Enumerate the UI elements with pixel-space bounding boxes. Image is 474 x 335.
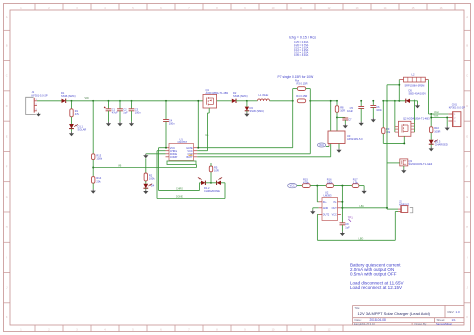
svg-text:1uF: 1uF bbox=[123, 111, 128, 115]
svg-text:SS36 (SMC): SS36 (SMC) bbox=[250, 109, 265, 113]
svg-text:C7: C7 bbox=[348, 117, 352, 121]
svg-text:KF301-5.0-2P: KF301-5.0-2P bbox=[449, 105, 465, 109]
svg-text:470k: 470k bbox=[303, 180, 309, 184]
svg-text:SS36 (SMC): SS36 (SMC) bbox=[233, 94, 248, 98]
svg-text:Vout: Vout bbox=[434, 115, 439, 118]
svg-text:10R: 10R bbox=[340, 109, 345, 113]
svg-text:1uF: 1uF bbox=[345, 225, 350, 229]
svg-text:H: H bbox=[6, 226, 8, 229]
svg-text:TP1: TP1 bbox=[348, 216, 354, 220]
svg-text:C: C bbox=[6, 75, 8, 78]
svg-text:Load reconnect at 12.15V: Load reconnect at 12.15V bbox=[350, 285, 403, 290]
svg-text:VCC: VCC bbox=[290, 185, 295, 188]
svg-text:SBD 40A/100V: SBD 40A/100V bbox=[409, 91, 427, 95]
svg-text:EasyEDA v5.3.10: EasyEDA v5.3.10 bbox=[354, 322, 375, 326]
svg-text:LM393: LM393 bbox=[324, 194, 332, 198]
svg-text:SS36 (SMC): SS36 (SMC) bbox=[61, 94, 76, 98]
svg-text:IN-: IN- bbox=[334, 201, 337, 204]
svg-text:VIN: VIN bbox=[85, 97, 89, 100]
svg-text:KF301-5.0-2P: KF301-5.0-2P bbox=[32, 93, 48, 97]
svg-text:L1 33uH: L1 33uH bbox=[259, 93, 269, 97]
svg-text:Drawn By:: Drawn By: bbox=[415, 322, 428, 326]
svg-text:0.05 = 3.00A: 0.05 = 3.00A bbox=[294, 54, 309, 57]
svg-text:100k: 100k bbox=[149, 177, 155, 181]
svg-text:CHARGED: CHARGED bbox=[435, 143, 448, 147]
svg-text:20k: 20k bbox=[96, 179, 101, 183]
svg-text:Vout: Vout bbox=[434, 111, 439, 114]
svg-text:100n: 100n bbox=[135, 111, 141, 115]
svg-text:H: H bbox=[466, 226, 468, 229]
svg-text:1.0: 1.0 bbox=[456, 310, 461, 314]
svg-text:0.5mA with output OFF: 0.5mA with output OFF bbox=[350, 271, 397, 276]
svg-text:LB1: LB1 bbox=[360, 205, 365, 208]
svg-text:R4 0.15R: R4 0.15R bbox=[296, 94, 307, 98]
svg-text:100n: 100n bbox=[169, 121, 175, 125]
svg-text:GND: GND bbox=[323, 207, 329, 210]
svg-text:1.5k: 1.5k bbox=[353, 180, 359, 184]
svg-text:P7 single 0.15R for 10W: P7 single 0.15R for 10W bbox=[278, 75, 315, 79]
svg-text:IN+: IN+ bbox=[323, 201, 327, 204]
svg-text:REV:: REV: bbox=[448, 310, 455, 314]
svg-text:Title:: Title: bbox=[355, 306, 361, 310]
svg-text:D: D bbox=[466, 105, 468, 108]
svg-text:10R: 10R bbox=[214, 169, 219, 173]
svg-text:C: C bbox=[466, 75, 468, 78]
svg-text:47k: 47k bbox=[75, 112, 80, 116]
svg-text:AP2210N-5.0: AP2210N-5.0 bbox=[347, 137, 363, 141]
svg-text:BATT: BATT bbox=[186, 156, 193, 159]
svg-text:OUT2: OUT2 bbox=[323, 214, 330, 217]
svg-text:100R: 100R bbox=[434, 129, 440, 133]
svg-text:Q2 AOD4185A-T1-4B3: Q2 AOD4185A-T1-4B3 bbox=[403, 116, 430, 120]
svg-text:CHRG: CHRG bbox=[176, 188, 183, 191]
svg-text:SamsorMisal: SamsorMisal bbox=[436, 322, 452, 326]
svg-text:VB: VB bbox=[118, 165, 122, 168]
svg-text:VCC: VCC bbox=[332, 214, 337, 217]
svg-text:SI2319CDS-T1-GE3: SI2319CDS-T1-GE3 bbox=[409, 162, 433, 166]
svg-text:SOLAR: SOLAR bbox=[78, 128, 87, 132]
svg-text:G: G bbox=[6, 196, 8, 199]
svg-text:D4: D4 bbox=[151, 184, 155, 188]
svg-text:R3 0.15R: R3 0.15R bbox=[297, 82, 308, 86]
svg-text:1/1: 1/1 bbox=[452, 318, 457, 322]
svg-text:Sheet:: Sheet: bbox=[437, 318, 446, 322]
svg-text:G: G bbox=[466, 196, 468, 199]
svg-text:LBO: LBO bbox=[359, 237, 364, 240]
svg-text:VCC: VCC bbox=[319, 144, 324, 147]
svg-text:Date:: Date: bbox=[355, 318, 362, 322]
svg-text:2018-04-08: 2018-04-08 bbox=[370, 318, 387, 322]
svg-text:1G: 1G bbox=[205, 134, 208, 137]
svg-text:SRP1038A-3R3M: SRP1038A-3R3M bbox=[405, 84, 425, 87]
svg-text:DONE: DONE bbox=[176, 196, 183, 199]
svg-text:D: D bbox=[6, 105, 8, 108]
svg-text:Ichg = 0.15 / Rcs: Ichg = 0.15 / Rcs bbox=[289, 36, 316, 40]
svg-text:10uF: 10uF bbox=[347, 109, 353, 113]
svg-text:100k: 100k bbox=[327, 180, 333, 184]
svg-text:CHRG/DONE: CHRG/DONE bbox=[204, 189, 220, 193]
svg-text:OUT: OUT bbox=[332, 207, 338, 210]
svg-text:COMP: COMP bbox=[170, 156, 178, 159]
svg-text:12V 3A MPPT Solar Charger (Lea: 12V 3A MPPT Solar Charger (Lead Acid) bbox=[358, 311, 431, 316]
svg-text:100k: 100k bbox=[96, 157, 102, 161]
svg-text:100n: 100n bbox=[376, 108, 382, 112]
